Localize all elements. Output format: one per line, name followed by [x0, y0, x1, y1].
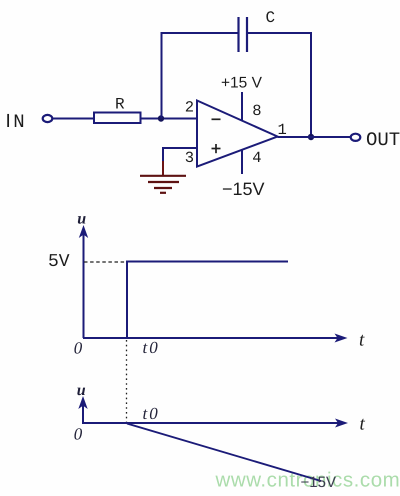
wire pin3 to ground corner: [162, 147, 197, 149]
supply -15V wire: [241, 150, 243, 174]
ground symbol: [140, 176, 186, 193]
graph2 y-axis: [82, 403, 84, 423]
wire R to op-amp: [141, 118, 198, 120]
svg-text:+15 V: +15 V: [221, 75, 263, 92]
supply +15V wire: [241, 92, 243, 121]
graph1 y-axis arrowhead: [79, 225, 88, 238]
capacitor C right plate: [246, 17, 248, 52]
svg-text:2: 2: [185, 99, 194, 117]
svg-text:t0: t0: [143, 404, 160, 423]
svg-text:0: 0: [74, 425, 83, 444]
graph1 dashed 5V level: [84, 261, 127, 263]
wire feedback right vertical: [310, 32, 312, 137]
svg-text:C: C: [266, 9, 276, 27]
node B junction dot: [308, 134, 314, 140]
svg-text:N: N: [13, 111, 24, 133]
terminal IN: [43, 115, 53, 122]
svg-text:−15V: −15V: [301, 474, 336, 491]
svg-text:OUT: OUT: [366, 129, 400, 151]
wire feedback left vertical: [161, 33, 163, 119]
node A junction dot: [158, 115, 164, 121]
graph1 y-axis: [83, 232, 85, 338]
op-amp U1 triangle: [197, 101, 278, 167]
graph1 t-axis: [83, 337, 340, 339]
svg-text:5V: 5V: [48, 252, 70, 272]
svg-text:R: R: [115, 96, 125, 114]
wire IN to R: [53, 118, 95, 120]
svg-text:t: t: [360, 414, 366, 435]
graph2 y-axis arrowhead: [78, 396, 87, 409]
graph1 t-axis arrowhead: [335, 334, 348, 343]
svg-text:I: I: [6, 111, 11, 132]
graph2 ramp: [127, 424, 321, 482]
graph2 t-axis arrowhead: [335, 419, 348, 428]
graph2 t-axis: [82, 422, 341, 424]
svg-text:u: u: [77, 382, 86, 399]
svg-text:8: 8: [252, 102, 261, 120]
graph1 step top level: [126, 261, 288, 263]
wire feedback top right: [248, 32, 312, 34]
op-amp plus sign: [212, 144, 221, 153]
svg-text:4: 4: [252, 149, 261, 167]
svg-text:3: 3: [185, 149, 194, 167]
wire feedback top left: [161, 32, 239, 34]
op-amp minus sign: [212, 118, 221, 120]
svg-text:0: 0: [74, 339, 83, 358]
svg-text:u: u: [77, 211, 86, 228]
resistor R: [94, 113, 141, 124]
svg-text:t: t: [359, 330, 365, 351]
terminal OUT: [351, 134, 361, 141]
wire ground vertical: [162, 147, 164, 162]
svg-text:t0: t0: [143, 338, 160, 357]
dotted line t0 between graphs: [126, 340, 128, 422]
capacitor C left plate: [237, 17, 239, 52]
svg-text:−15V: −15V: [222, 179, 265, 199]
wire op-amp output: [278, 136, 351, 138]
graph1 step vertical: [126, 262, 128, 339]
